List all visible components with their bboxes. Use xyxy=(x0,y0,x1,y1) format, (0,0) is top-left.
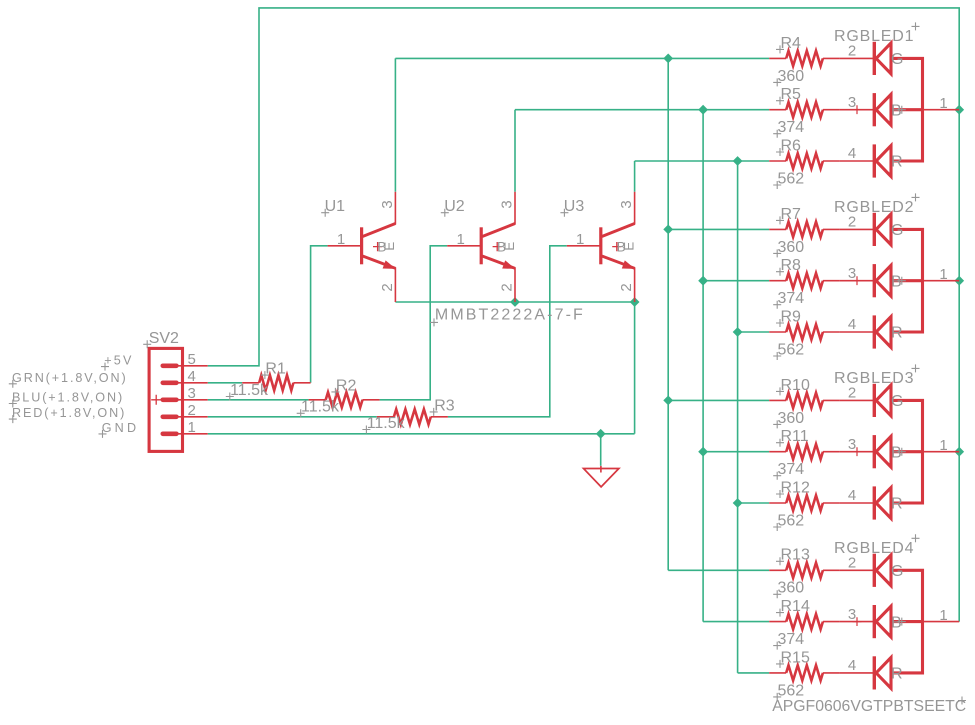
label R11 xyxy=(776,428,809,447)
svg-text:562: 562 xyxy=(778,341,805,358)
label R6 xyxy=(776,137,801,156)
wire RED bus tap row3 xyxy=(738,502,770,504)
svg-text:3: 3 xyxy=(499,200,516,208)
label R8 xyxy=(776,257,801,276)
value 562 (R9) xyxy=(773,341,804,360)
net label GRN(+1.8V,ON) xyxy=(9,371,128,388)
junction +5V rail RGBLED3 pin1 xyxy=(954,447,964,457)
svg-text:E: E xyxy=(502,242,517,251)
junction BLUE bus row2 xyxy=(698,276,708,286)
svg-text:2: 2 xyxy=(379,283,396,291)
wire U3 collector riser xyxy=(634,161,636,192)
RGB LED RGBLED2 xyxy=(840,213,959,349)
svg-text:3: 3 xyxy=(848,265,856,282)
label R10 xyxy=(776,377,810,396)
svg-text:2: 2 xyxy=(848,385,856,402)
svg-text:360: 360 xyxy=(778,410,805,427)
wire BLUE bus tap row4 xyxy=(703,621,769,623)
value 374 (R11) xyxy=(773,461,804,480)
svg-text:R15: R15 xyxy=(781,649,810,666)
svg-text:GRN(+1.8V,ON): GRN(+1.8V,ON) xyxy=(12,371,128,385)
junction GREEN bus / U1 collector feed xyxy=(663,54,673,64)
svg-text:+5V: +5V xyxy=(104,354,133,368)
svg-text:11.5k: 11.5k xyxy=(367,415,406,432)
svg-text:4: 4 xyxy=(188,368,196,385)
value 11.5k (R2) xyxy=(297,399,340,418)
value 562 (R12) xyxy=(773,512,804,531)
resistor R2 xyxy=(309,392,380,407)
junction emitter rail U3 xyxy=(630,297,640,307)
RGBLED2 origin mark xyxy=(898,277,906,285)
svg-text:1: 1 xyxy=(939,266,947,283)
wire GRN net: SV2 pin4 to R1 xyxy=(208,382,243,384)
svg-text:11.5k: 11.5k xyxy=(230,382,269,399)
value 562 (R6) xyxy=(773,170,804,189)
svg-text:G: G xyxy=(891,563,903,580)
resistor R8 xyxy=(769,273,840,288)
svg-text:4: 4 xyxy=(848,487,856,504)
svg-text:R: R xyxy=(891,154,903,171)
svg-text:360: 360 xyxy=(778,580,805,597)
svg-text:R: R xyxy=(891,325,903,342)
svg-text:562: 562 xyxy=(778,170,805,187)
svg-text:G: G xyxy=(891,222,903,239)
wire emitter rail U1-U2-U3 down to GND net xyxy=(395,302,634,434)
svg-text:B: B xyxy=(891,102,902,119)
label RGBLED3 xyxy=(834,364,920,387)
junction RED bus row3 xyxy=(733,498,743,508)
svg-text:R: R xyxy=(891,666,903,683)
RGBLED3 origin mark xyxy=(898,448,906,456)
connector SV2 xyxy=(149,348,208,451)
resistor R4 xyxy=(769,51,840,66)
value 374 (R5) xyxy=(773,119,804,138)
label MMBT2222A-7-F xyxy=(430,307,585,327)
label R15 xyxy=(776,649,810,668)
resistor R10 xyxy=(769,393,840,408)
svg-text:APGF0606VGTPBTSEETC: APGF0606VGTPBTSEETC xyxy=(772,698,966,715)
wire RED-channel bus down xyxy=(737,161,739,673)
svg-text:2: 2 xyxy=(618,283,635,291)
resistor R6 xyxy=(769,153,840,168)
svg-text:GND: GND xyxy=(102,421,140,435)
label U2 xyxy=(441,198,465,217)
value 374 (R14) xyxy=(773,631,804,650)
svg-text:R11: R11 xyxy=(781,428,809,445)
svg-text:3: 3 xyxy=(188,385,196,402)
wire BLUE-channel feed: U2 collector to R5 row xyxy=(515,109,769,111)
wire GREEN bus tap row3 xyxy=(668,399,769,401)
net label BLU(+1.8V,ON) xyxy=(9,391,124,408)
resistor R5 xyxy=(769,102,840,117)
wire GREEN-channel feed: U1 collector to R4 row xyxy=(395,57,769,59)
resistor R1 xyxy=(242,375,310,390)
RGB LED RGBLED3 xyxy=(840,384,959,520)
svg-text:RGBLED3: RGBLED3 xyxy=(834,370,914,387)
svg-text:360: 360 xyxy=(778,68,805,85)
wire U1 collector riser xyxy=(394,58,396,191)
net label +5V xyxy=(101,354,134,371)
svg-text:3: 3 xyxy=(848,436,856,453)
label R9 xyxy=(776,308,801,327)
svg-text:2: 2 xyxy=(848,214,856,231)
svg-text:RGBLED2: RGBLED2 xyxy=(834,199,914,216)
svg-text:R: R xyxy=(891,496,903,513)
value 11.5k (R1) xyxy=(226,382,269,401)
svg-text:BLU(+1.8V,ON): BLU(+1.8V,ON) xyxy=(12,391,124,405)
svg-text:R10: R10 xyxy=(781,377,810,394)
svg-text:R14: R14 xyxy=(781,598,810,615)
wire U2 collector riser xyxy=(514,110,516,192)
svg-text:2: 2 xyxy=(499,283,516,291)
wire BLUE-channel bus down xyxy=(702,110,704,622)
svg-text:E: E xyxy=(382,242,397,251)
wire GREEN bus tap row2 xyxy=(668,228,769,230)
RGB LED RGBLED1 xyxy=(840,42,959,178)
RGBLED4 origin mark xyxy=(898,618,906,626)
junction RED bus row2 xyxy=(733,327,743,337)
svg-text:B: B xyxy=(891,444,902,461)
wire BLUE bus tap row3 xyxy=(703,451,769,453)
wire RED net: SV2 pin2 to R3 xyxy=(208,416,377,418)
label R3 xyxy=(430,397,455,416)
label R7 xyxy=(776,206,801,225)
label R14 xyxy=(776,598,810,617)
ground xyxy=(584,466,619,487)
resistor R3 xyxy=(377,409,448,424)
svg-text:2: 2 xyxy=(848,43,856,60)
resistor R13 xyxy=(769,563,840,578)
junction GND net / ground symbol xyxy=(596,429,606,439)
svg-text:1: 1 xyxy=(939,607,947,624)
junction BLUE bus row3 xyxy=(698,447,708,457)
net label GND xyxy=(99,421,140,438)
label SV2 xyxy=(143,330,179,349)
value 360 (R7) xyxy=(773,239,804,258)
junction BLUE bus / U2 collector feed xyxy=(698,105,708,115)
svg-text:3: 3 xyxy=(379,200,396,208)
RGBLED1 origin mark xyxy=(898,106,906,114)
label U1 xyxy=(321,198,345,217)
resistor R14 xyxy=(769,614,840,629)
svg-text:4: 4 xyxy=(848,657,856,674)
label RGBLED2 xyxy=(834,193,920,216)
svg-text:360: 360 xyxy=(778,239,805,256)
wire R3 to U3 base xyxy=(448,246,567,417)
svg-text:3: 3 xyxy=(618,200,635,208)
svg-text:R13: R13 xyxy=(781,547,810,564)
RGB LED RGBLED4 xyxy=(840,554,959,690)
svg-text:11.5k: 11.5k xyxy=(301,399,340,416)
svg-text:MMBT2222A-7-F: MMBT2222A-7-F xyxy=(435,307,585,324)
value 374 (R8) xyxy=(773,290,804,309)
svg-text:B: B xyxy=(891,614,902,631)
svg-text:G: G xyxy=(891,51,903,68)
value 360 (R10) xyxy=(773,410,804,429)
svg-text:374: 374 xyxy=(778,461,805,478)
svg-text:1: 1 xyxy=(337,231,345,248)
label R5 xyxy=(776,86,801,105)
transistor U3 (NPN MMBT2222A) xyxy=(567,192,635,302)
junction GREEN bus row2 xyxy=(663,225,673,235)
value 360 (R4) xyxy=(773,68,804,87)
svg-text:2: 2 xyxy=(848,555,856,572)
label R1 xyxy=(261,361,286,380)
wire BLU net: SV2 pin3 to R2 xyxy=(208,399,309,401)
label R2 xyxy=(331,377,356,396)
value 11.5k (R3) xyxy=(362,415,405,434)
wire R2 to U2 base xyxy=(380,246,448,400)
svg-text:4: 4 xyxy=(848,145,856,162)
value 562 (R15) xyxy=(773,682,804,701)
wire R1 to U1 base xyxy=(311,246,328,383)
wire ground stem xyxy=(600,434,602,466)
svg-text:374: 374 xyxy=(778,119,805,136)
value 360 (R13) xyxy=(773,580,804,599)
svg-text:RGBLED4: RGBLED4 xyxy=(834,540,914,557)
label R4 xyxy=(776,35,801,54)
junction RED bus / U3 collector feed xyxy=(733,156,743,166)
wire GND net: SV2 pin1 to emitter column xyxy=(208,433,635,435)
wire RED bus tap row4 xyxy=(738,672,770,674)
label U3 xyxy=(560,198,584,217)
svg-text:E: E xyxy=(621,242,636,251)
junction +5V rail RGBLED1 pin1 xyxy=(954,105,964,115)
svg-text:RGBLED1: RGBLED1 xyxy=(834,28,914,45)
svg-text:SV2: SV2 xyxy=(149,330,179,347)
label R12 xyxy=(776,479,810,498)
svg-text:R12: R12 xyxy=(781,479,810,496)
svg-text:G: G xyxy=(891,393,903,410)
svg-text:RED(+1.8V,ON): RED(+1.8V,ON) xyxy=(12,406,126,420)
wire GREEN bus tap row4 xyxy=(668,569,769,571)
junction +5V rail RGBLED2 pin1 xyxy=(954,276,964,286)
svg-text:1: 1 xyxy=(576,231,584,248)
junction emitter rail U2 xyxy=(510,297,520,307)
wire +5V net: SV2 pin5 up over top rail to LED anode rail xyxy=(208,8,960,622)
resistor R7 xyxy=(769,222,840,237)
transistor U1 (NPN MMBT2222A) xyxy=(328,192,396,302)
resistor R9 xyxy=(769,324,840,339)
wire RED-channel feed: U3 collector to R6 row xyxy=(635,160,770,162)
svg-text:374: 374 xyxy=(778,290,805,307)
svg-text:3: 3 xyxy=(848,94,856,111)
svg-text:2: 2 xyxy=(188,402,196,419)
resistor R15 xyxy=(769,665,840,680)
svg-text:1: 1 xyxy=(939,437,947,454)
label APGF0606VGTPBTSEETC xyxy=(772,697,966,716)
wire GREEN-channel bus down xyxy=(667,58,669,570)
svg-text:562: 562 xyxy=(778,682,805,699)
label RGBLED1 xyxy=(834,22,920,45)
svg-text:B: B xyxy=(891,273,902,290)
label R13 xyxy=(776,547,810,566)
net label RED(+1.8V,ON) xyxy=(9,406,126,423)
wire RED bus tap row2 xyxy=(738,331,770,333)
svg-text:562: 562 xyxy=(778,512,805,529)
svg-text:5: 5 xyxy=(188,351,196,368)
transistor U2 (NPN MMBT2222A) xyxy=(447,192,515,302)
svg-text:3: 3 xyxy=(848,606,856,623)
resistor R12 xyxy=(769,495,840,510)
svg-text:1: 1 xyxy=(456,231,464,248)
svg-text:1: 1 xyxy=(188,419,196,436)
wire BLUE bus tap row2 xyxy=(703,280,769,282)
svg-text:374: 374 xyxy=(778,631,805,648)
svg-text:4: 4 xyxy=(848,316,856,333)
svg-text:1: 1 xyxy=(939,95,947,112)
label RGBLED4 xyxy=(834,534,920,557)
resistor R11 xyxy=(769,444,840,459)
junction GREEN bus row3 xyxy=(663,396,673,406)
